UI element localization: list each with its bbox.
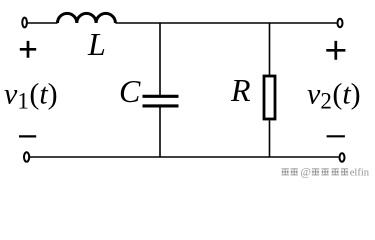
svg-text:v2(t): v2(t) <box>307 78 361 114</box>
wire capacitor branch upper <box>159 23 161 95</box>
minus sign right <box>327 135 345 137</box>
svg-text:C: C <box>119 73 141 109</box>
wire bottom <box>30 156 339 158</box>
minus sign left <box>19 135 36 137</box>
inductor L <box>58 13 116 23</box>
wire top (inductor to right terminal) <box>115 22 336 24</box>
terminal top-right <box>338 19 343 27</box>
svg-text:L: L <box>87 26 106 62</box>
wire top-left (terminal to inductor) <box>28 22 58 24</box>
plus sign left <box>20 41 36 58</box>
svg-text:v1(t): v1(t) <box>4 78 58 114</box>
terminal bottom-right <box>340 153 345 161</box>
terminal bottom-left <box>24 152 29 162</box>
svg-text:elfin: elfin <box>350 167 370 178</box>
terminal top-left <box>22 18 27 28</box>
wire resistor branch upper <box>269 23 271 75</box>
wire capacitor branch lower <box>159 108 161 158</box>
svg-text:@: @ <box>300 167 311 179</box>
plus sign right <box>326 41 345 60</box>
wire resistor branch lower <box>269 121 271 158</box>
resistor R box <box>264 76 275 119</box>
svg-text:R: R <box>230 72 251 108</box>
capacitor C plates <box>143 95 179 98</box>
